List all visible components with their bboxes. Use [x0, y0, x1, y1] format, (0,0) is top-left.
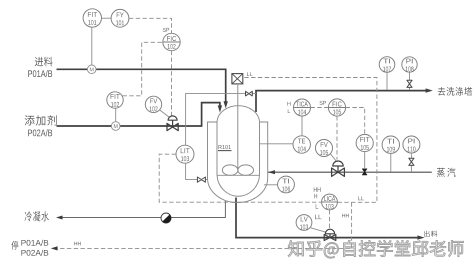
signal line FIC-105 to valve FV-105 [336, 116, 338, 160]
label P01A/B at interlock [21, 240, 48, 246]
instrument bubble FIC-105 (controller) [328, 99, 345, 116]
signal line FIT-105 to FIC-105 [346, 108, 365, 135]
label 添加剂 (additive) [25, 115, 57, 125]
pipe: additive line from P02A/B into reactor [57, 103, 223, 126]
watermark 知乎@自控学堂邱老师 [288, 240, 463, 258]
impulse line TE-104 to vessel [260, 143, 293, 145]
instrument bubble TI-107 [379, 57, 395, 90]
reactor R101 vessel shell [217, 106, 260, 197]
label 去洗涤塔 (to scrubber) [438, 87, 472, 96]
instrument bubble LV-103 [296, 215, 327, 233]
signal line LIT-103 to LICA-103 [159, 154, 322, 202]
instrument bubble FIT-101 [83, 9, 101, 27]
label R101 [218, 145, 232, 151]
instrument bubble PI-108 [402, 57, 417, 90]
instrument bubble TI-109 [382, 136, 399, 172]
pipe: steam line into jacket [268, 170, 432, 174]
agitator motor [232, 74, 243, 84]
impulse line LIT-103 bottom tap to jacket [186, 163, 208, 179]
root valve under PI-108 [407, 80, 412, 87]
signal line LICA-103 LL interlock to agitator motor [244, 78, 377, 203]
instrument bubble FIT-105 [356, 134, 373, 151]
label LL at motor [247, 72, 253, 76]
pipe: feed line from P01A/B into reactor [57, 69, 228, 108]
instrument bubble TE-104 [293, 136, 310, 153]
label HH on interlock line near LICA-103 [342, 214, 349, 218]
label 出料 (discharge) [424, 231, 437, 237]
hand valve on LIT-103 bottom tap [197, 177, 205, 182]
label SP at FIC-102 [163, 28, 170, 32]
label 进料 (feed) [35, 57, 53, 67]
flow element (magnetic flowmeter) on additive line [111, 122, 120, 131]
instrument bubble PI-110 [403, 136, 420, 172]
impulse line FIT-102 to flow element [115, 108, 117, 122]
signal line FY-101 to FIC-102 [129, 18, 172, 33]
pipe: condensate line from jacket [56, 201, 225, 220]
instrument bubble TICA-104 (controller) with H/L alarms [287, 99, 310, 116]
signal line FIT-102 to FIC-102 [123, 42, 163, 96]
signal line LICA-103 to valve LV-103 [329, 210, 331, 229]
label HH on interlock line near pumps [74, 242, 81, 246]
signal line FIC-102 to valve FV-102 [171, 51, 173, 116]
instrument bubble FIT-102 [107, 92, 123, 108]
instrument bubble FIC-102 (controller) [163, 33, 180, 50]
control valve FV-105 on steam line [332, 161, 345, 176]
agitator shaft and impeller [222, 84, 253, 175]
flow element (magnetic flowmeter) on feed line [87, 65, 96, 74]
instrument bubble LIT-103 [176, 145, 194, 163]
instrument bubble TI-106 [264, 176, 294, 193]
label LL near LICA-103 [358, 197, 364, 201]
signal line LICA-103 HH interlock to stop pumps [51, 202, 352, 250]
pipe: discharge line from reactor bottom [236, 198, 425, 240]
label 蒸汽 (steam) [437, 168, 456, 177]
control valve FV-102 on additive line [167, 116, 178, 131]
control valve LV-103 on discharge line [324, 229, 336, 240]
instrument bubble LICA-103 (controller) with alarms [314, 187, 338, 219]
label SP at FIC-105 [320, 101, 327, 105]
reactor R101 jacket [208, 122, 268, 203]
pipe: vent line from reactor to scrubber [256, 88, 433, 112]
line TE-104 to TICA-104 [301, 116, 303, 136]
label 冷凝水 (condensate) [25, 211, 49, 221]
instrument bubble FV-105 [316, 140, 337, 162]
instrument bubble FV-102 [145, 96, 170, 117]
steam trap on condensate line [161, 213, 171, 223]
label 停 (stop) [12, 241, 19, 250]
impulse line LIT-103 top tap to vent line [186, 94, 256, 145]
impulse line FIT-105 to flow orifice [364, 152, 366, 168]
root valve under PI-110 [409, 158, 414, 165]
flow orifice on steam line [362, 169, 367, 175]
hand valve on LIT-103 top tap [246, 91, 253, 96]
signal line TICA-104 to FIC-105 [311, 107, 329, 109]
impulse line FIT-101 to flow element [91, 27, 93, 65]
label P02A/B at additive [28, 129, 52, 136]
label P02A/B at interlock [21, 250, 48, 256]
instrument bubble FY-101 [102, 9, 129, 27]
label P01A/B at feed [28, 70, 52, 77]
